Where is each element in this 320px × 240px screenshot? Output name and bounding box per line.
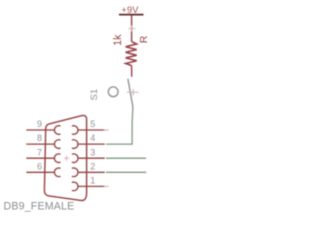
- pin 8 stub wire: [26, 143, 54, 145]
- resistor bottom pin wire: [131, 66, 133, 77]
- svg-text:5: 5: [90, 119, 95, 129]
- svg-text:DB9_FEMALE: DB9_FEMALE: [4, 201, 75, 213]
- pin 1 tip cross: [104, 185, 109, 187]
- net wire from DB9 pin 3: [106, 157, 146, 159]
- pin 2 stub wire: [78, 171, 105, 173]
- svg-text:8: 8: [37, 133, 42, 143]
- svg-text:1k: 1k: [112, 34, 124, 46]
- pin 2 socket arc: [72, 168, 78, 177]
- pin 4 socket arc: [72, 140, 78, 149]
- switch pin connection cross: [127, 89, 139, 96]
- connector J1 DB9 body outline: [44, 115, 86, 200]
- svg-text:2: 2: [90, 161, 95, 171]
- svg-text:S1: S1: [89, 89, 100, 101]
- svg-text:6: 6: [37, 161, 42, 171]
- pin 7 stub wire: [26, 157, 54, 159]
- svg-text:+9V: +9V: [121, 5, 139, 15]
- pin 9 stub wire: [26, 129, 54, 131]
- pin 8 socket arc: [54, 140, 60, 149]
- svg-text:9: 9: [37, 119, 42, 129]
- pin 5 stub wire: [78, 129, 105, 131]
- power pin connection cross: [128, 25, 135, 31]
- svg-text:3: 3: [90, 147, 95, 157]
- svg-text:R: R: [138, 35, 150, 43]
- pin 3 stub wire: [78, 157, 105, 159]
- svg-text:1: 1: [90, 176, 95, 186]
- pin 6 stub wire: [26, 171, 54, 173]
- pin 3 socket arc: [72, 154, 78, 163]
- pin 5 tip cross: [104, 129, 109, 131]
- pin 6 socket arc: [54, 168, 60, 177]
- switch S1 actuator circle: [108, 87, 118, 97]
- pin 1 stub wire: [78, 185, 105, 187]
- switch S1 lever: [128, 79, 133, 107]
- pin 5 socket arc: [72, 126, 78, 135]
- net wire from switch to DB9 pin 4: [106, 120, 132, 144]
- pin 4 stub wire: [78, 143, 105, 145]
- power symbol +9V rail bar: [119, 14, 144, 16]
- pin 1 socket arc: [72, 182, 78, 191]
- switch bottom pin stub: [131, 107, 134, 121]
- svg-text:4: 4: [90, 133, 95, 143]
- resistor R zigzag body: [126, 42, 137, 66]
- pin 7 socket arc: [54, 154, 60, 163]
- pin 9 socket arc: [54, 126, 60, 135]
- power symbol pin wire: [131, 16, 133, 42]
- net wire from DB9 pin 2: [106, 171, 146, 173]
- connector origin cross: [64, 156, 69, 161]
- svg-text:7: 7: [37, 147, 42, 157]
